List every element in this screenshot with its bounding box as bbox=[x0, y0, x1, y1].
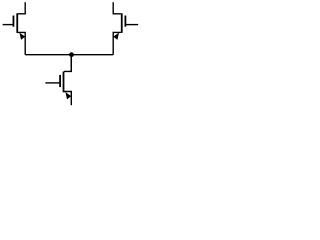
gate lead bbox=[3, 24, 14, 26]
gate bar bbox=[12, 16, 14, 27]
wire dot to M3 drain bbox=[70, 55, 72, 72]
transistor M2 (top-right NMOS, mirrored) bbox=[113, 2, 138, 54]
gate bar bbox=[124, 16, 126, 27]
drain lead bbox=[18, 2, 26, 14]
source lead bbox=[18, 32, 26, 54]
source lead bbox=[113, 32, 121, 54]
drain lead bbox=[64, 55, 72, 72]
transistor M1 (top-left NMOS) bbox=[3, 2, 26, 54]
channel bar bbox=[63, 72, 65, 93]
transistor M3 (bottom-center NMOS) bbox=[45, 55, 71, 106]
gate lead bbox=[45, 82, 60, 84]
tail wire bbox=[25, 54, 113, 56]
drain lead bbox=[113, 2, 121, 14]
source arrow M1 bbox=[19, 33, 25, 40]
channel bar bbox=[16, 13, 18, 33]
source arrow M3 bbox=[65, 92, 71, 99]
source arrow M2 bbox=[113, 33, 119, 40]
source lead bbox=[64, 92, 72, 106]
gate bar bbox=[59, 75, 61, 87]
junction dot bbox=[69, 52, 74, 57]
gate lead bbox=[125, 24, 138, 26]
channel bar bbox=[121, 13, 123, 33]
